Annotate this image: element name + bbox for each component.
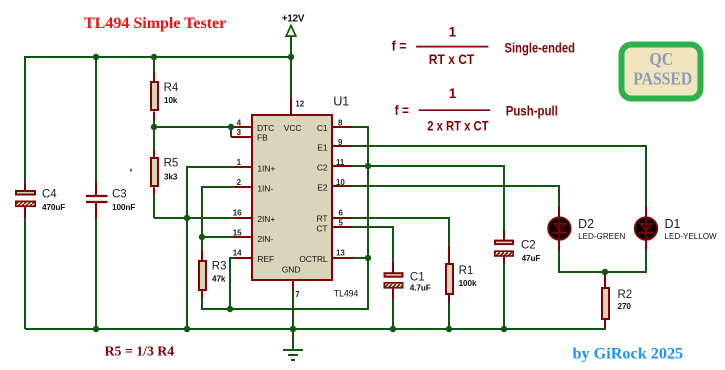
pin 3 stub xyxy=(231,136,253,138)
svg-text:D1: D1 xyxy=(665,217,681,231)
svg-text:D2: D2 xyxy=(578,217,594,231)
svg-text:C3: C3 xyxy=(112,189,127,201)
svg-text:2IN-: 2IN- xyxy=(257,234,273,244)
svg-text:f =: f = xyxy=(395,103,409,118)
junction dot bus ground xyxy=(290,326,296,332)
svg-text:Push-pull: Push-pull xyxy=(506,104,558,119)
wire pin3 bracket xyxy=(230,127,232,137)
junction dot pin13 x368 xyxy=(365,255,371,261)
svg-text:R2: R2 xyxy=(618,289,633,301)
svg-text:R4: R4 xyxy=(164,82,179,94)
svg-text:C2: C2 xyxy=(317,163,328,173)
junction dot pin11 x368 xyxy=(365,163,371,169)
svg-text:9: 9 xyxy=(338,138,343,147)
LED D2 xyxy=(548,206,625,251)
svg-text:LED-YELLOW: LED-YELLOW xyxy=(665,232,718,241)
wire pin16 row xyxy=(154,217,234,219)
wire pin11 row to C2 xyxy=(352,166,504,231)
svg-text:270: 270 xyxy=(618,302,632,311)
wire pin1 row + node column to ground bus xyxy=(187,167,234,329)
svg-text:LED-GREEN: LED-GREEN xyxy=(578,232,625,241)
pin 6 stub xyxy=(331,217,352,219)
svg-text:3k3: 3k3 xyxy=(164,173,178,182)
pin 11 stub xyxy=(331,165,352,167)
svg-text:2 x RT x CT: 2 x RT x CT xyxy=(427,118,489,133)
svg-text:16: 16 xyxy=(233,208,242,217)
svg-text:by GiRock 2025: by GiRock 2025 xyxy=(573,345,684,363)
svg-text:RT x CT: RT x CT xyxy=(429,52,475,67)
junction dot pin15 node xyxy=(199,234,205,240)
svg-text:R3: R3 xyxy=(212,261,227,273)
svg-text:+12V: +12V xyxy=(282,13,305,24)
svg-text:1: 1 xyxy=(449,25,457,40)
svg-text:C1: C1 xyxy=(317,123,328,133)
svg-text:C4: C4 xyxy=(42,189,57,201)
junction dot bus C3 xyxy=(93,326,99,332)
svg-text:VCC: VCC xyxy=(284,123,302,133)
wire pin6 row to R1 xyxy=(352,218,449,248)
svg-text:11: 11 xyxy=(336,158,345,167)
wire pin2 row + drop to R3 xyxy=(202,187,234,252)
pin 16 stub xyxy=(234,217,253,219)
pin 10 stub xyxy=(331,185,352,187)
resistor R1 xyxy=(446,246,477,303)
svg-text:QC: QC xyxy=(650,49,674,69)
svg-text:RT: RT xyxy=(317,214,328,224)
svg-text:TL494: TL494 xyxy=(334,288,359,298)
svg-text:10: 10 xyxy=(336,178,345,187)
svg-text:4.7uF: 4.7uF xyxy=(410,284,431,293)
wire pin15 row xyxy=(202,236,234,238)
stray mark near R5 xyxy=(130,169,132,172)
svg-text:PASSED: PASSED xyxy=(633,69,692,89)
svg-text:DTC: DTC xyxy=(257,123,274,133)
svg-text:47k: 47k xyxy=(212,274,226,283)
svg-text:2: 2 xyxy=(237,178,242,187)
junction dot REF drop xyxy=(227,306,233,312)
svg-text:C2: C2 xyxy=(521,239,536,251)
wire R1 bottom xyxy=(448,301,450,329)
svg-text:12: 12 xyxy=(295,99,304,108)
resistor R5 xyxy=(151,149,178,195)
wire VCC column xyxy=(290,36,292,98)
power +12V symbol xyxy=(282,13,305,36)
resistor R4 xyxy=(151,72,179,120)
capacitor C4 xyxy=(16,183,65,218)
svg-text:1: 1 xyxy=(449,86,457,101)
svg-text:R5 = 1/3 R4: R5 = 1/3 R4 xyxy=(105,344,175,359)
pin 5 stub xyxy=(331,226,352,228)
junction dot bus C2 xyxy=(501,326,507,332)
svg-text:5: 5 xyxy=(339,219,344,228)
svg-text:1: 1 xyxy=(237,158,242,167)
svg-text:R1: R1 xyxy=(459,265,474,277)
wire C1 bottom xyxy=(392,296,394,329)
IC U1 TL494 body xyxy=(252,115,332,280)
svg-text:U1: U1 xyxy=(333,93,349,108)
svg-text:7: 7 xyxy=(295,290,300,299)
formula push-pull xyxy=(395,86,558,133)
svg-text:TL494 Simple Tester: TL494 Simple Tester xyxy=(84,15,226,32)
svg-text:REF: REF xyxy=(257,254,274,264)
svg-text:15: 15 xyxy=(233,228,242,237)
capacitor C1 xyxy=(384,262,430,300)
svg-text:47uF: 47uF xyxy=(522,254,541,263)
svg-text:C1: C1 xyxy=(410,272,425,284)
pin 14 stub xyxy=(234,257,253,259)
svg-text:6: 6 xyxy=(339,208,344,217)
pin 7 stub xyxy=(292,279,294,291)
capacitor C3 xyxy=(86,181,135,220)
svg-text:CT: CT xyxy=(316,223,327,233)
svg-text:470uF: 470uF xyxy=(42,203,65,212)
formula single-ended xyxy=(392,25,575,67)
svg-text:OCTRL: OCTRL xyxy=(299,254,328,264)
pin 9 stub xyxy=(331,145,352,147)
junction dot +12V node xyxy=(288,54,294,60)
wire R3 bottom + x368 column + pin8 row xyxy=(202,127,368,309)
wire R4-R5 column xyxy=(153,57,155,218)
svg-text:E2: E2 xyxy=(317,183,328,193)
wire C3 column xyxy=(95,57,97,329)
junction dot top bus C3 xyxy=(93,54,99,60)
svg-text:1IN+: 1IN+ xyxy=(257,164,275,174)
pin 12 stub xyxy=(290,98,292,116)
svg-text:E1: E1 xyxy=(317,143,328,153)
LED D1 xyxy=(635,206,717,251)
wire pin4 row xyxy=(154,126,234,128)
wire pin14 REF drop xyxy=(230,258,234,309)
QC PASSED stamp xyxy=(622,45,701,99)
svg-text:Single-ended: Single-ended xyxy=(505,40,576,55)
wire pin5 row to C1 xyxy=(352,227,393,263)
junction dot row16 x187 xyxy=(184,215,190,221)
pin 2 stub xyxy=(234,186,253,188)
resistor R2 xyxy=(602,275,632,328)
wire C2 bottom xyxy=(503,259,505,329)
wire top bus + C4 column + bottom bus + R2 column xyxy=(25,57,605,329)
svg-text:1IN-: 1IN- xyxy=(257,184,273,194)
svg-text:14: 14 xyxy=(233,249,242,258)
wire pin13 row xyxy=(352,257,368,259)
pin 15 stub xyxy=(234,236,253,238)
junction dot bus x187 xyxy=(184,326,190,332)
svg-text:13: 13 xyxy=(336,249,345,258)
pin 1 stub xyxy=(234,166,253,168)
junction dot LED join R2 xyxy=(602,269,608,275)
svg-text:100nF: 100nF xyxy=(112,203,135,212)
svg-text:R5: R5 xyxy=(164,158,179,170)
svg-text:8: 8 xyxy=(338,118,343,127)
svg-text:GND: GND xyxy=(282,264,301,274)
ground symbol xyxy=(283,350,303,360)
svg-text:4: 4 xyxy=(237,118,242,127)
junction dot bus C1 xyxy=(390,326,396,332)
junction dot top bus R4 xyxy=(151,54,157,60)
junction dot pin3-pin4 tie xyxy=(228,124,234,130)
pin 4 stub xyxy=(234,126,253,128)
pin 13 stub xyxy=(331,257,353,259)
svg-text:f =: f = xyxy=(392,39,407,54)
pin 8 stub xyxy=(331,126,352,128)
wire pin10 row to D2 xyxy=(352,186,559,208)
junction dot bus R1 xyxy=(446,326,452,332)
resistor R3 xyxy=(199,250,227,299)
wire GND column xyxy=(292,291,294,350)
capacitor C2 xyxy=(495,229,541,264)
svg-text:FB: FB xyxy=(257,133,268,143)
svg-text:100k: 100k xyxy=(459,279,477,288)
svg-text:2IN+: 2IN+ xyxy=(257,214,275,224)
svg-text:10k: 10k xyxy=(164,96,178,105)
svg-text:3: 3 xyxy=(237,128,242,137)
wire pin9 row to D1 xyxy=(352,146,646,208)
junction dot R4-R5 pin4 node xyxy=(151,124,157,130)
wire LED bottoms join row xyxy=(559,249,646,272)
